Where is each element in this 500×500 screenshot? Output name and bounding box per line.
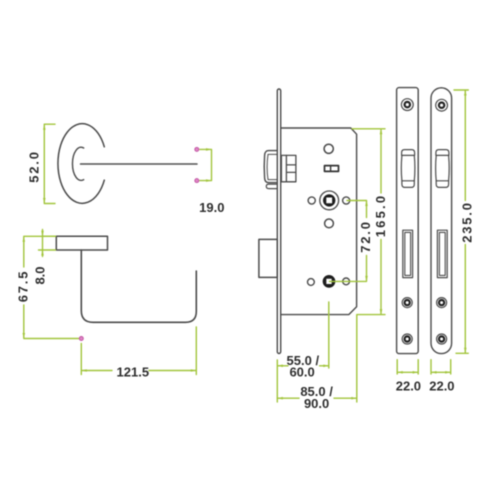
svg-text:8.0: 8.0 — [33, 266, 48, 284]
svg-text:22.0: 22.0 — [396, 379, 421, 394]
svg-text:121.5: 121.5 — [117, 365, 150, 380]
svg-text:165.0: 165.0 — [373, 194, 388, 238]
svg-text:22.0: 22.0 — [429, 379, 454, 394]
svg-text:60.0: 60.0 — [289, 365, 314, 380]
svg-text:19.0: 19.0 — [199, 200, 224, 215]
svg-text:90.0: 90.0 — [304, 396, 329, 411]
svg-text:72.0: 72.0 — [358, 220, 373, 253]
svg-text:67.5: 67.5 — [16, 270, 31, 303]
svg-text:52.0: 52.0 — [26, 150, 41, 183]
svg-text:235.0: 235.0 — [460, 201, 475, 243]
